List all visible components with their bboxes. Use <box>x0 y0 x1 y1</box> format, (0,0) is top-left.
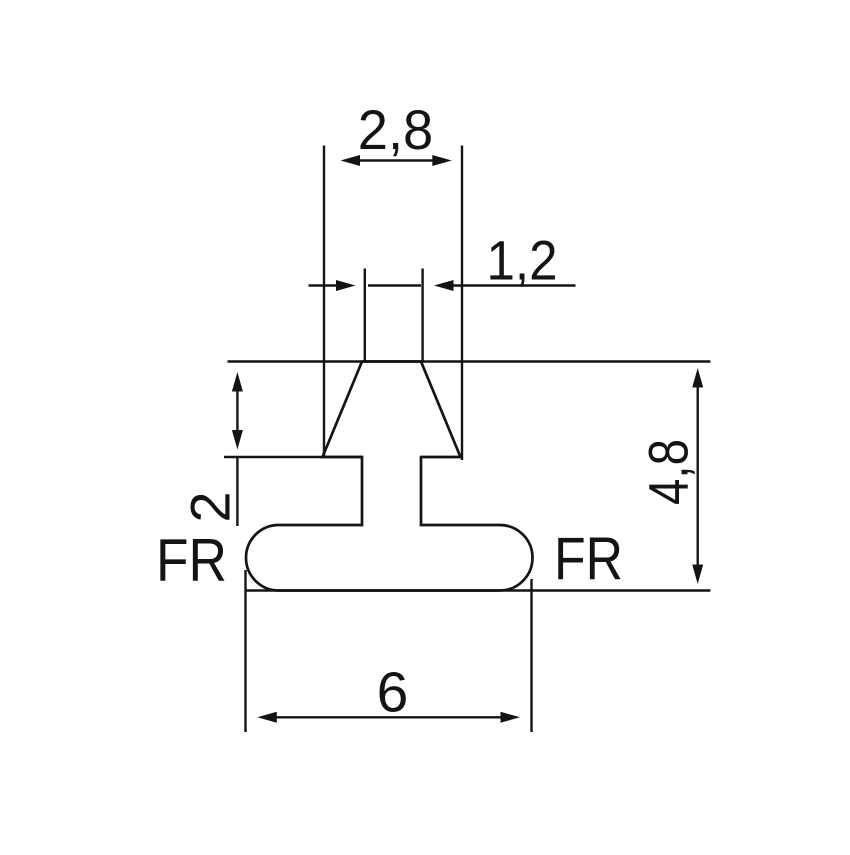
svg-text:2: 2 <box>179 491 242 522</box>
dimension line 6 <box>271 716 506 718</box>
arrowhead 2,8 right <box>432 155 452 166</box>
dimension line 1,2 middle <box>368 284 421 286</box>
svg-text:FR: FR <box>554 526 623 593</box>
arrowhead 4,8 top <box>692 368 703 388</box>
extension line 1,2 right <box>421 269 423 362</box>
extension line 6 left <box>244 570 246 732</box>
arrowhead 1,2 right <box>434 280 454 291</box>
dimension line 1,2 right tail <box>453 284 576 286</box>
top reference line <box>228 360 711 362</box>
arrowhead 6 right <box>501 712 521 723</box>
extension line 6 right <box>530 579 532 732</box>
svg-text:2,8: 2,8 <box>358 98 434 161</box>
arrowhead 4,8 bottom <box>692 565 703 585</box>
extension line 1,2 left <box>364 269 366 362</box>
arrowhead 2,8 left <box>341 155 361 166</box>
svg-text:4,8: 4,8 <box>637 439 700 505</box>
dimension line 2 lower extension <box>236 458 238 527</box>
arrowhead 1,2 left <box>336 280 356 291</box>
arrowhead 2 bottom <box>232 430 243 450</box>
dimension line 4,8 <box>697 382 699 570</box>
dimension line 1,2 left tail <box>309 284 339 286</box>
svg-text:FR: FR <box>156 527 227 594</box>
extension line 2,8 right <box>461 146 463 461</box>
arrowhead 6 left <box>257 712 277 723</box>
svg-text:1,2: 1,2 <box>487 229 558 292</box>
ledge extension line left <box>224 456 362 458</box>
arrowhead 2 top <box>232 372 243 392</box>
dimension line 2,8 <box>355 159 437 161</box>
bottom reference line <box>246 589 711 591</box>
extension line 2,8 left <box>323 146 325 457</box>
svg-text:6: 6 <box>377 661 409 725</box>
dimension line 2 <box>236 386 238 435</box>
profile outline <box>246 362 533 591</box>
